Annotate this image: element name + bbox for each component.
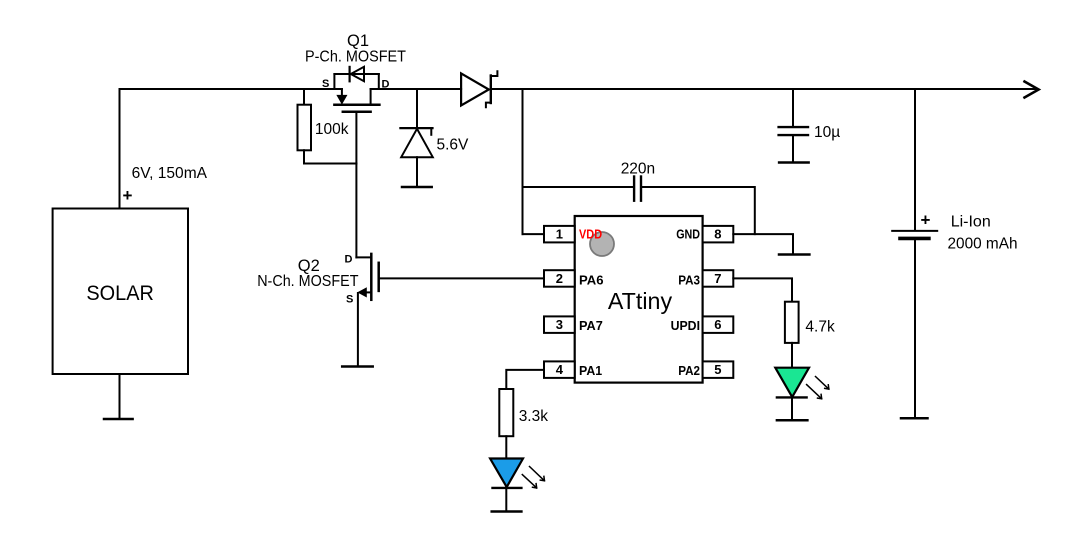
svg-text:SOLAR: SOLAR — [86, 282, 153, 305]
LED D3 blue — [490, 459, 523, 488]
svg-text:5: 5 — [714, 362, 721, 377]
svg-text:3.3k: 3.3k — [519, 408, 549, 425]
svg-text:PA7: PA7 — [579, 318, 603, 333]
svg-text:6: 6 — [714, 317, 721, 332]
resistor R3 3.3k — [499, 389, 513, 436]
LED blue light arrows — [522, 467, 544, 489]
wire top rail right segment — [491, 88, 1037, 90]
wire 220n right — [642, 187, 755, 234]
wire solar to ground — [119, 374, 121, 419]
svg-text:Li-Ion: Li-Ion — [951, 214, 991, 231]
svg-text:5.6V: 5.6V — [437, 137, 470, 154]
wire 100k bottom to gate node — [304, 150, 356, 163]
pin 8 — [703, 226, 734, 243]
wire 3.3k to LED and ground — [505, 436, 507, 511]
transistor Q1 P-Ch MOSFET — [334, 74, 379, 112]
svg-text:2: 2 — [556, 271, 563, 286]
wire VDD node down from rail — [522, 89, 524, 234]
svg-text:N-Ch. MOSFET: N-Ch. MOSFET — [257, 273, 359, 290]
pin 3 — [544, 316, 575, 333]
ground green LED — [777, 419, 808, 422]
capacitor C2 10u — [779, 127, 808, 162]
svg-text:+: + — [921, 211, 931, 230]
node output arrow — [1025, 82, 1039, 98]
svg-text:UPDI: UPDI — [671, 318, 700, 333]
wire 10u to rail — [792, 89, 794, 127]
wire pin4 to 3.3k — [506, 370, 544, 389]
svg-text:6V, 150mA: 6V, 150mA — [132, 165, 208, 182]
wire Q2 gate to pin2 — [379, 277, 544, 279]
ground Q2 — [342, 365, 373, 368]
svg-text:PA3: PA3 — [678, 272, 700, 287]
pin 4 — [544, 361, 575, 378]
wire solar to rail — [119, 89, 121, 209]
LED D2 green — [775, 368, 809, 398]
capacitor C1 220n — [634, 177, 641, 201]
schottky diode D1 — [461, 71, 497, 107]
wire top rail left segment — [120, 88, 342, 90]
svg-text:100k: 100k — [315, 121, 349, 138]
svg-text:4.7k: 4.7k — [805, 319, 835, 336]
pin 2 — [544, 270, 575, 287]
svg-text:PA2: PA2 — [678, 363, 700, 378]
solar panel SOLAR — [53, 209, 188, 375]
svg-text:4: 4 — [556, 362, 564, 377]
wire 4.7k to LED and ground — [791, 343, 793, 420]
svg-text:PA1: PA1 — [579, 363, 602, 378]
resistor R1 100k — [298, 105, 312, 151]
svg-text:ATtiny: ATtiny — [608, 288, 673, 314]
wire 100k to rail — [303, 89, 305, 105]
svg-text:10µ: 10µ — [814, 124, 840, 141]
svg-text:S: S — [346, 294, 353, 306]
svg-text:P-Ch. MOSFET: P-Ch. MOSFET — [305, 49, 406, 66]
transistor Q2 N-Ch MOSFET — [356, 164, 378, 367]
wire 220n left — [523, 186, 634, 188]
svg-text:8: 8 — [714, 227, 721, 242]
svg-text:VDD: VDD — [579, 227, 602, 242]
ground battery — [901, 417, 928, 420]
svg-text:2000 mAh: 2000 mAh — [948, 236, 1018, 253]
svg-text:1: 1 — [556, 227, 563, 242]
ground blue LED — [492, 510, 522, 513]
battery Li-Ion — [892, 231, 937, 418]
pin 5 — [703, 361, 734, 378]
pin 7 — [703, 270, 734, 287]
svg-text:S: S — [322, 78, 329, 90]
zener diode 5.6V — [400, 89, 432, 187]
IC U1 ATtiny body — [575, 216, 703, 383]
svg-text:3: 3 — [556, 317, 563, 332]
svg-text:GND: GND — [676, 227, 700, 242]
svg-text:Q2: Q2 — [298, 257, 320, 275]
svg-text:D: D — [345, 254, 353, 266]
wire pin8 to ground — [733, 234, 793, 254]
pin 1 — [544, 226, 575, 243]
pin 6 — [703, 316, 734, 333]
wire Q1 gate down — [355, 112, 357, 164]
resistor R2 4.7k — [785, 302, 799, 343]
wire top rail middle segment — [371, 88, 462, 90]
svg-text:PA6: PA6 — [579, 272, 604, 287]
svg-text:220n: 220n — [621, 160, 655, 177]
wire pin7 to 4.7k — [733, 278, 792, 301]
svg-text:7: 7 — [714, 271, 721, 286]
ground solar — [104, 418, 133, 421]
LED green light arrows — [807, 377, 829, 399]
ground 10u — [779, 161, 809, 164]
pin1 marker dot — [590, 232, 614, 256]
ground pin8 — [779, 253, 809, 256]
svg-text:+: + — [123, 186, 133, 205]
svg-text:D: D — [382, 78, 390, 90]
ground zener — [402, 186, 432, 189]
svg-text:Q1: Q1 — [347, 32, 369, 50]
wire to pin1 — [523, 233, 545, 235]
wire battery to rail — [914, 89, 916, 230]
body diode Q1 — [350, 67, 364, 82]
